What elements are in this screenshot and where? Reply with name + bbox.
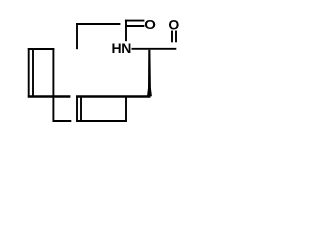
C=O amide double bond upper line [125,20,144,22]
svg-text:HN: HN [111,40,131,56]
C=O amide double bond lower line [125,25,144,27]
ring B bottom edge [76,120,127,122]
aldehyde C=O double bond left line [171,31,173,43]
wedge stereo bond from alpha carbon down to ring B [147,50,152,97]
ring A left inner double-bond line [32,50,34,96]
wire main chain horizontal bond CH2 to carbonyl C [76,23,120,25]
wire ethyl CH3 terminal vertical bond [76,23,78,49]
ring A bottom edge extended right [28,95,71,98]
svg-text:O: O [144,18,156,33]
ring A left outer vertical edge [28,48,30,97]
svg-text:O: O [168,16,179,32]
ring B left outer vertical edge [76,96,78,122]
ring B left inner double-bond line [80,97,82,120]
wire N to alpha carbon to aldehyde carbon horizontal bond [132,48,177,50]
aldehyde C=O double bond right line [175,31,177,43]
wire carbonyl C to N vertical bond [125,20,127,42]
wire lower-left L horizontal bond [53,120,72,122]
ring A top edge [28,48,55,50]
ring A right vertical edge extended down to lower-left corner [52,48,54,122]
ring B top edge extended right to wedge [76,95,150,98]
ring B right vertical edge [125,96,127,122]
